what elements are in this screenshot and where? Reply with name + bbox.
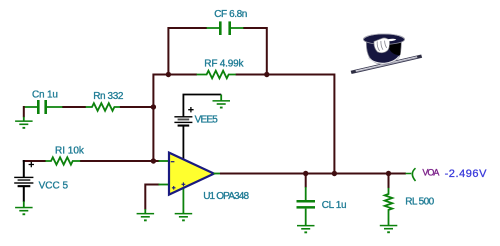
wire feedback top-right leg — [243, 28, 267, 76]
logo magician hat — [363, 34, 404, 64]
battery VEE plates — [174, 116, 192, 127]
node RI/feedback junction — [151, 158, 156, 163]
wire RF horizontal — [153, 74, 334, 76]
node feedback-right junction — [264, 72, 269, 77]
wire input chain segments — [62, 106, 154, 108]
ground at VEE — [213, 95, 231, 109]
wire non-inverting input — [145, 184, 159, 210]
op-amp non-inverting input pin — [159, 184, 169, 186]
svg-text:CF 6.8n: CF 6.8n — [214, 9, 247, 20]
wire RL drop — [388, 173, 390, 189]
op-amp V- pin to ground — [182, 185, 184, 213]
capacitor CL plates — [297, 200, 316, 203]
node inverting input junction (Rn) — [151, 104, 156, 109]
ground at VCC — [15, 201, 32, 215]
svg-text:RI 10k: RI 10k — [55, 146, 85, 157]
svg-text:RF 4.99k: RF 4.99k — [204, 59, 244, 70]
logo wand — [351, 55, 422, 74]
svg-text:VOA: VOA — [422, 168, 439, 178]
battery VCC lead bottom — [23, 187, 25, 202]
op-amp plus marker (input) — [172, 186, 176, 190]
node output/feedback junction — [332, 171, 337, 176]
capacitor Cn plates — [37, 100, 40, 114]
svg-text:VEE5: VEE5 — [195, 114, 219, 125]
op-amp plus marker (V-) — [182, 182, 186, 186]
capacitor CL leads — [305, 187, 307, 226]
op-amp U1 triangle — [169, 153, 214, 195]
capacitor CF leads — [207, 27, 244, 29]
svg-text:VCC 5: VCC 5 — [39, 181, 69, 192]
svg-text:CL 1u: CL 1u — [322, 200, 346, 211]
capacitor CF plates — [219, 21, 222, 35]
output terminal VOA — [406, 168, 416, 181]
ground at RL — [380, 225, 398, 233]
battery VEE plus sign — [188, 107, 193, 112]
op-amp minus marker — [171, 161, 175, 163]
ground at op-amp V- — [175, 213, 193, 221]
wire Cn ground drop — [23, 106, 25, 117]
battery VCC plates — [14, 177, 33, 188]
resistor RF — [197, 71, 236, 79]
op-amp output pin — [214, 173, 221, 175]
svg-text:U1 OPA348: U1 OPA348 — [203, 191, 249, 202]
ground at CL — [297, 225, 315, 233]
svg-text:Cn 1u: Cn 1u — [32, 89, 58, 100]
capacitor Cn leads — [23, 106, 63, 108]
ground at Cn — [15, 117, 32, 129]
resistor RL — [385, 188, 393, 226]
op-amp inverting input pin — [159, 160, 169, 162]
battery VCC plus sign — [29, 162, 34, 167]
wire RI line — [23, 160, 160, 162]
ground at non-inverting input — [137, 209, 155, 221]
node output/RL junction — [386, 171, 391, 176]
svg-text:Rn 332: Rn 332 — [93, 91, 124, 102]
node feedback-left junction — [166, 72, 171, 77]
wire CL drop — [305, 173, 307, 188]
battery VCC lead top — [23, 160, 25, 177]
wire inverting-node vertical — [152, 74, 154, 162]
node output/CL junction — [303, 171, 308, 176]
svg-text:-2.496V: -2.496V — [445, 168, 487, 180]
wire feedback top-left leg — [168, 28, 207, 76]
battery VEE bottom lead to op-amp V+ — [182, 126, 184, 162]
battery VEE top lead to ground — [183, 95, 221, 117]
resistor Rn — [86, 103, 120, 111]
wire feedback vertical drop — [333, 74, 335, 174]
resistor RI — [45, 157, 80, 164]
svg-text:RL 500: RL 500 — [405, 197, 434, 208]
wire output — [220, 173, 406, 175]
